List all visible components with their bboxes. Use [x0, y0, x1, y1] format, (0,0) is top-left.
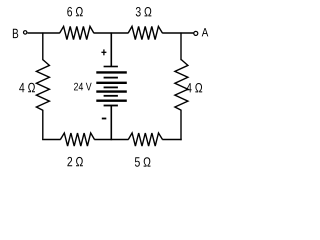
- terminal A: [194, 31, 198, 35]
- resistor R3 4ohm (left vertical): [36, 60, 49, 111]
- resistor R1 6ohm (top left): [60, 26, 94, 39]
- wire: battery V1 negative terminal down to node J3: [110, 106, 112, 141]
- wire: R3 down to bottom-left corner: [42, 110, 44, 139]
- wire: node J1 down to resistor R3: [42, 32, 44, 60]
- resistor R5 2ohm (bottom left): [60, 133, 94, 146]
- wire: node J2 down to battery V1 positive terminal: [110, 32, 112, 66]
- node A label: [202, 28, 209, 36]
- terminal B: [24, 31, 27, 34]
- wire: bottom-left corner to resistor R5: [42, 139, 61, 141]
- value label 5 ohm: [135, 157, 151, 167]
- value label 24 V: [74, 83, 92, 91]
- value label 3 ohm: [136, 7, 152, 17]
- resistor R2 3ohm (top right): [128, 26, 162, 39]
- wire: terminal B to resistor R1 (top left, through node J1): [28, 32, 60, 34]
- battery V1 minus sign: [102, 118, 107, 120]
- wire: R5 to R6 through node J3 (bottom middle): [94, 139, 128, 141]
- node B label: [13, 29, 18, 38]
- value label 2 ohm: [67, 157, 82, 166]
- resistor R6 5ohm (bottom right): [128, 133, 162, 146]
- resistor R4 4ohm (right vertical): [175, 60, 188, 111]
- battery V1 plus sign: [101, 49, 106, 55]
- wire: R6 to bottom-right corner: [162, 139, 181, 141]
- battery V1 24V plates: [96, 67, 127, 106]
- value label 4 ohm (left): [19, 83, 35, 92]
- wire: R1 to R2 through node J2 (top middle): [94, 32, 129, 34]
- value label 6 ohm: [67, 7, 82, 17]
- wire: R2 to terminal A (top right, through node J4): [162, 32, 193, 34]
- wire: node J4 down to resistor R4: [180, 32, 182, 60]
- wire: bottom-right corner up to resistor R4: [180, 110, 182, 140]
- value label 4 ohm (right): [186, 83, 202, 92]
